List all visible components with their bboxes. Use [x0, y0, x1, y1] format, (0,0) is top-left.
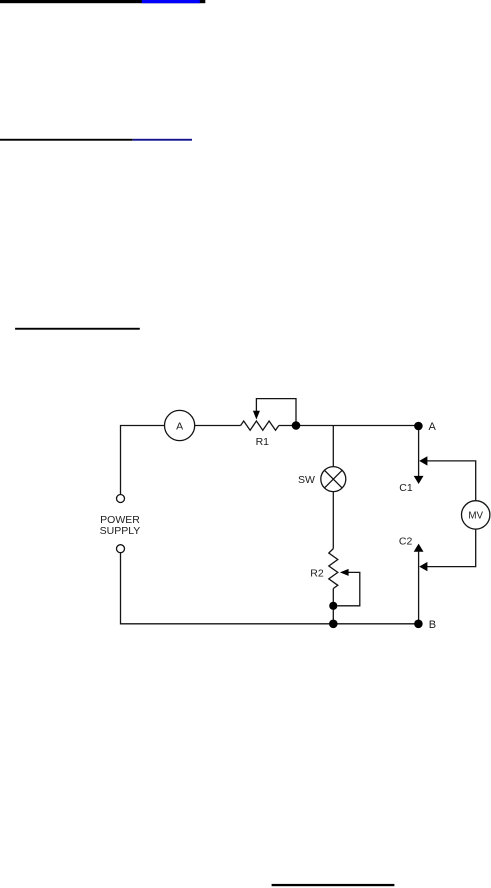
- millivoltmeter MV circle: [462, 501, 490, 529]
- wire: millivoltmeter top lead to C1 arrow: [427, 461, 476, 501]
- wire: node B up to clip C2: [418, 552, 420, 624]
- R2 wiper arrowhead: [340, 569, 349, 576]
- power supply + terminal: [117, 495, 125, 503]
- node A dot: [414, 422, 423, 431]
- svg-text:SW: SW: [298, 474, 315, 486]
- wire: power supply + terminal up and right to ammeter: [121, 426, 165, 495]
- wire: R2 to bottom wire: [332, 589, 334, 624]
- svg-text:C2: C2: [399, 536, 413, 548]
- wire: ammeter to R1: [195, 425, 241, 427]
- lamp SW circle: [321, 467, 346, 492]
- svg-text:A: A: [176, 420, 183, 432]
- wire: power supply - terminal down and bottom wire to node B: [121, 553, 419, 624]
- wire: lamp SW to R2: [332, 492, 334, 549]
- power supply - terminal: [117, 545, 125, 553]
- resistor R2 zigzag: [329, 549, 338, 589]
- R1 wiper arrowhead: [253, 411, 260, 420]
- lamp SW cross: [325, 470, 343, 488]
- C1 lead arrowhead (left): [419, 456, 427, 465]
- svg-text:R2: R2: [310, 568, 324, 580]
- ammeter A circle: [165, 410, 195, 440]
- top rule hyperlink segment (blue): [142, 0, 200, 3]
- svg-text:POWER: POWER: [100, 514, 140, 526]
- svg-text:MV: MV: [468, 511, 483, 522]
- resistor R1 zigzag: [241, 421, 279, 430]
- bottom rule (black): [272, 884, 395, 886]
- R1 wiper loop wire: [256, 399, 296, 426]
- wire: node A down to clip C1: [418, 426, 420, 476]
- svg-text:A: A: [429, 421, 437, 433]
- R2 wiper loop wire: [337, 572, 360, 605]
- svg-text:B: B: [429, 619, 436, 631]
- C1 clip arrowhead (down): [414, 476, 424, 484]
- svg-text:C1: C1: [399, 482, 413, 494]
- underline rule 3 (black): [15, 328, 140, 330]
- junction dot R2 wiper: [329, 602, 337, 610]
- svg-text:R1: R1: [256, 436, 270, 448]
- C2 clip arrowhead (up): [414, 544, 424, 552]
- wire: tee to lamp SW: [332, 426, 334, 467]
- underline rule 2 hyperlink segment (navy): [133, 139, 192, 141]
- top rule (black, partly cropped): [0, 0, 205, 3]
- junction dot after R1: [292, 421, 301, 430]
- underline rule 2 (black): [0, 139, 133, 141]
- wire: millivoltmeter bottom lead to C2 arrow: [427, 529, 476, 567]
- svg-text:SUPPLY: SUPPLY: [100, 525, 141, 537]
- wire: R1 to node A: [279, 425, 419, 427]
- C2 lead arrowhead (left): [419, 562, 427, 571]
- junction dot bottom wire: [329, 620, 338, 629]
- node B dot: [414, 620, 423, 629]
